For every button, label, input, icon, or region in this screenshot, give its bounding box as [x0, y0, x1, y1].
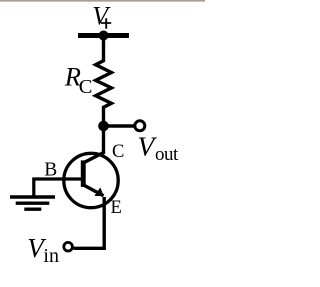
- svg-text:E: E: [111, 198, 122, 218]
- svg-text:in: in: [43, 245, 59, 267]
- svg-text:C: C: [112, 142, 124, 162]
- svg-text:C: C: [79, 76, 93, 98]
- svg-text:B: B: [44, 160, 57, 181]
- svg-text:out: out: [155, 144, 179, 165]
